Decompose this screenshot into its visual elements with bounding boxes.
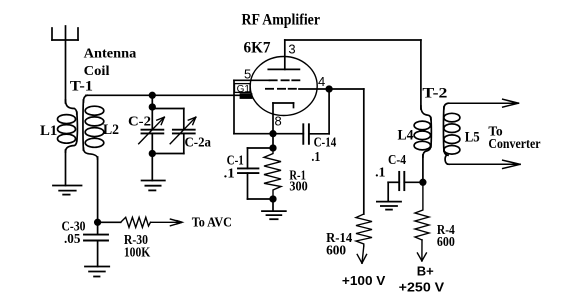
- G1 box: [235, 84, 251, 93]
- svg-text:600: 600: [326, 243, 346, 258]
- svg-text:3: 3: [288, 42, 295, 57]
- op-amp U1 tube 6K7 envelope: [250, 57, 317, 116]
- svg-text:C-2: C-2: [128, 114, 151, 129]
- svg-text:.1: .1: [375, 165, 385, 180]
- capacitor C-1: [238, 168, 258, 173]
- wire C-1 bottom: [248, 198, 274, 200]
- arrow B+ down: [417, 240, 426, 261]
- wire C-1 left top: [247, 148, 249, 168]
- svg-text:C-14: C-14: [314, 136, 337, 151]
- inductor L4: [414, 106, 431, 157]
- ground (below C-4): [377, 202, 401, 210]
- inductor L5: [443, 103, 459, 164]
- node R-1 top: [270, 145, 276, 151]
- resistor R-1: [264, 148, 281, 199]
- wire to ground below R-1: [272, 199, 274, 211]
- svg-text:.1: .1: [224, 167, 235, 182]
- node C-30 junction: [95, 220, 101, 226]
- wire C-1 top: [248, 147, 274, 149]
- node cathode junction: [270, 131, 276, 137]
- wire L2 bottom to C-30 junction: [97, 157, 99, 222]
- wire cathode to R-1 top: [272, 134, 274, 148]
- svg-text:4: 4: [318, 74, 325, 89]
- svg-text:5: 5: [244, 67, 251, 82]
- resistor R-4: [415, 182, 429, 240]
- wire C-2 top stub: [151, 109, 153, 130]
- wire grid rail T-1 to tube grid cap: [86, 94, 240, 96]
- wire drop to C-14: [328, 89, 330, 134]
- node C-2 bottom: [150, 151, 156, 157]
- svg-text:L2: L2: [103, 122, 119, 138]
- plate bar: [268, 68, 299, 70]
- wire C-2 bottom stub: [151, 133, 153, 153]
- ground (below R-1): [262, 211, 286, 219]
- arrow +100V down: [357, 246, 366, 263]
- wire C-1 left bottom: [247, 173, 249, 199]
- wire converter top arrow: [448, 99, 519, 107]
- wire converter bottom arrow: [448, 160, 521, 168]
- capacitor C-2 (variable): [142, 130, 164, 134]
- node R-1 bottom: [270, 196, 276, 202]
- capacitor C-2a (variable): [173, 130, 195, 134]
- svg-text:.05: .05: [64, 232, 80, 247]
- wire C-14 right: [309, 133, 329, 135]
- inductor L1: [58, 100, 78, 152]
- capacitor C-14: [303, 124, 309, 144]
- wire junction to C-2 top: [151, 95, 153, 108]
- wire C-4 right: [404, 181, 423, 183]
- ground (below L1): [53, 186, 82, 195]
- wire C-2a right bottom: [183, 133, 185, 153]
- svg-text:To AVC: To AVC: [192, 215, 232, 230]
- cathode: [273, 103, 294, 134]
- resistor R-14: [356, 214, 372, 246]
- ground (below C-30): [85, 267, 109, 277]
- svg-text:100K: 100K: [124, 246, 150, 261]
- svg-text:600: 600: [437, 235, 455, 250]
- svg-text:Coil: Coil: [84, 64, 110, 79]
- inductor L2: [83, 95, 104, 159]
- svg-text:C-4: C-4: [388, 153, 406, 168]
- svg-text:+250 V: +250 V: [399, 280, 445, 295]
- svg-text:T-2: T-2: [422, 86, 447, 102]
- wire to AVC arrow: [151, 219, 185, 226]
- wire plate top rail: [285, 39, 421, 41]
- wire C-2a right top: [183, 109, 185, 130]
- wire C-2a box top: [152, 108, 184, 110]
- svg-text:RF Amplifier: RF Amplifier: [242, 11, 321, 28]
- svg-text:+100 V: +100 V: [342, 273, 386, 288]
- node C-2 top: [150, 104, 156, 110]
- wire to R-30: [98, 221, 121, 223]
- svg-text:C-2a: C-2a: [185, 135, 212, 150]
- wire cathode rail: [234, 133, 303, 135]
- svg-text:L4: L4: [398, 128, 414, 144]
- wire L1 bottom: [65, 150, 67, 186]
- svg-text:G1: G1: [237, 84, 251, 95]
- node C-4 junction: [420, 180, 426, 186]
- svg-text:300: 300: [289, 179, 307, 194]
- svg-text:Antenna: Antenna: [84, 47, 137, 62]
- wire drop to R-14: [363, 89, 365, 214]
- svg-text:T-1: T-1: [70, 79, 93, 95]
- svg-text:Converter: Converter: [488, 137, 540, 152]
- wire C-2a box bottom: [152, 153, 184, 155]
- wire L4 bottom: [422, 155, 424, 182]
- svg-text:L1: L1: [40, 123, 57, 139]
- svg-text:6K7: 6K7: [244, 40, 271, 57]
- svg-text:B+: B+: [417, 263, 434, 278]
- wire pin 4: [299, 88, 364, 90]
- antenna: [52, 26, 78, 103]
- wire to ground below C-2: [151, 154, 153, 181]
- resistor R-30: [121, 217, 151, 227]
- wire plate stem pin 3: [284, 40, 286, 69]
- wire pin 5: [234, 79, 270, 81]
- grid cap (filled): [240, 93, 253, 99]
- svg-text:.1: .1: [311, 150, 320, 165]
- capacitor C-4: [399, 172, 404, 190]
- svg-text:L5: L5: [465, 130, 480, 146]
- grid dashes row 1: [270, 79, 300, 81]
- node pin 4 junction: [326, 86, 332, 92]
- svg-text:8: 8: [275, 114, 282, 129]
- wire drop to ground: [387, 182, 389, 201]
- grid dashes row 2: [266, 88, 296, 90]
- wire C-4 left: [388, 181, 399, 183]
- ground (below C-2): [142, 181, 165, 191]
- wire left box vertical: [233, 80, 235, 133]
- node grid junction: [150, 93, 156, 99]
- capacitor C-30: [97, 222, 99, 234]
- wire drop to L4: [420, 40, 422, 109]
